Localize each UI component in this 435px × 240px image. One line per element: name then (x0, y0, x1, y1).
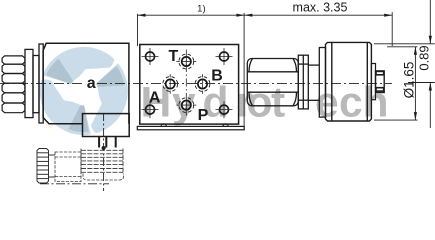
svg-text:T: T (169, 48, 179, 65)
mounting hole top-left (146, 52, 155, 61)
svg-text:B: B (211, 68, 223, 85)
junction dot (102, 146, 106, 150)
connector centerline (103, 113, 105, 191)
end nipple (376, 71, 385, 93)
washer before knob (319, 48, 325, 118)
foot bump left (161, 124, 166, 127)
hex nut on cartridge (247, 59, 298, 106)
port A (163, 74, 178, 94)
cable gland (knurled) (37, 149, 55, 184)
mounting hole top-right (220, 52, 229, 61)
phantom plug ribs (81, 149, 123, 175)
locknut (298, 55, 308, 109)
svg-text:Ø1.65: Ø1.65 (401, 62, 416, 99)
label a (86, 78, 96, 89)
svg-text:a: a (87, 75, 96, 92)
svg-text:t: t (271, 79, 285, 127)
spacer (33, 56, 39, 113)
watermark logo swirl (40, 47, 128, 135)
solenoid body (43, 43, 129, 124)
dimension max. 3.35 (244, 12, 392, 46)
svg-text:1): 1) (197, 4, 205, 15)
foot bump right (223, 124, 228, 127)
vertical port axis (185, 50, 187, 118)
port B (195, 74, 210, 94)
port T (176, 54, 196, 69)
svg-text:c: c (339, 79, 363, 127)
right extension lines (374, 44, 435, 120)
svg-text:P: P (198, 107, 209, 124)
connector pins (99, 137, 116, 148)
connector box under solenoid (83, 114, 130, 137)
svg-text:max. 3.35: max. 3.35 (293, 0, 348, 14)
base plate (137, 126, 244, 129)
mounting hole bottom-left (146, 105, 155, 114)
main centerline axis a (0, 82, 392, 84)
phantom plug left housing (55, 152, 81, 182)
mounting hole bottom-right (220, 105, 229, 114)
shaft (308, 65, 319, 100)
phantom plug lower body (83, 174, 124, 181)
adjustment knob (326, 42, 372, 121)
watermark text Hydrotech (141, 79, 389, 127)
step behind knob (371, 64, 375, 100)
svg-text:A: A (149, 90, 161, 107)
flange (39, 44, 43, 123)
knurled knob (manual override, left) (2, 56, 25, 113)
valve body (140, 45, 239, 125)
dimension line dia 1.65 (414, 47, 416, 120)
dimension line 0.89 (429, 0, 431, 44)
dimension 1) (138, 13, 245, 126)
plug axis bottom (40, 183, 109, 185)
mounting hole ticks (142, 48, 233, 118)
svg-text:0.89: 0.89 (416, 45, 431, 70)
washer behind knob (25, 49, 33, 117)
svg-text:e: e (315, 79, 339, 127)
svg-text:y: y (172, 79, 196, 127)
port P (176, 98, 196, 113)
